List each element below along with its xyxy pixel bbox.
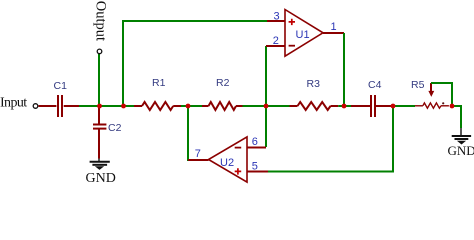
ground GND2 [452,128,471,144]
ground GND1 [90,159,110,170]
node Output terminal [97,49,102,54]
wire node D to R3 [266,105,290,107]
wire C1 to node A [79,105,100,107]
svg-text:7: 7 [195,148,201,160]
junction node A [97,104,102,109]
svg-text:U2: U2 [220,157,234,169]
wire R1 to node C [181,105,188,107]
svg-text:R1: R1 [152,77,166,89]
svg-text:6: 6 [252,136,258,148]
svg-text:GND: GND [448,143,474,158]
wire node B to R1 [123,105,134,107]
resistor R2 [202,102,243,110]
potentiometer R5 wiper dot [442,102,444,104]
svg-text:GND: GND [86,171,116,186]
svg-text:R3: R3 [307,78,321,90]
op-amp U2 [209,137,248,182]
wire node C down to U2 pin 7 [188,106,190,160]
op-amp U2 pin 7 lead [188,159,209,161]
resistor R1 [134,102,181,110]
wire node B up and across to U1 pin 3 [123,21,267,106]
op-amp U1 pin 1 lead [323,32,344,34]
junction node C [186,104,191,109]
node Input terminal [33,104,38,109]
junction node B [121,104,126,109]
op-amp U1 pin 2 lead [266,45,285,47]
junction node F [391,104,396,109]
svg-text:3: 3 [274,10,280,22]
capacitor C4 [351,95,393,117]
svg-text:Output: Output [93,1,109,41]
wire U1 pin 1 down to node E [343,33,345,106]
potentiometer R5 wiper arrow [429,83,434,96]
wire node E to C4 [344,105,352,107]
svg-text:R2: R2 [216,77,230,89]
svg-text:C2: C2 [108,122,122,134]
wire R2 to node D [243,105,267,107]
potentiometer R5 [415,103,449,108]
op-amp U2 pin 6 lead [247,147,266,149]
svg-text:R5: R5 [411,79,425,91]
svg-text:C1: C1 [54,80,68,92]
svg-text:C4: C4 [368,79,382,91]
capacitor C2 [93,106,106,159]
wire node G to ground [452,106,461,128]
svg-text:2: 2 [273,35,279,47]
wire node A up to Output terminal [98,54,100,106]
wire node F down and left to U2 pin 5 [268,106,393,172]
svg-text:U1: U1 [296,29,310,41]
resistor R3 [290,102,339,110]
junction node E [342,104,347,109]
capacitor C1 [39,95,80,117]
wire R5 wiper loop to node G [431,83,452,106]
svg-text:Input: Input [0,95,27,110]
junction node G [450,104,455,109]
junction node D [264,104,269,109]
wire R3 to node E [338,105,344,107]
op-amp U1 pin 3 lead [267,20,285,22]
wire node F to R5 [393,105,415,107]
wire node C to R2 [188,105,202,107]
op-amp U1 [285,10,323,57]
op-amp U2 pin 5 lead [247,171,268,173]
wire node A to node B [99,105,123,107]
svg-text:5: 5 [252,160,258,172]
svg-text:1: 1 [331,21,337,33]
wire node D up to U1 pin 2 and down to U2 pin 6 [265,46,267,147]
